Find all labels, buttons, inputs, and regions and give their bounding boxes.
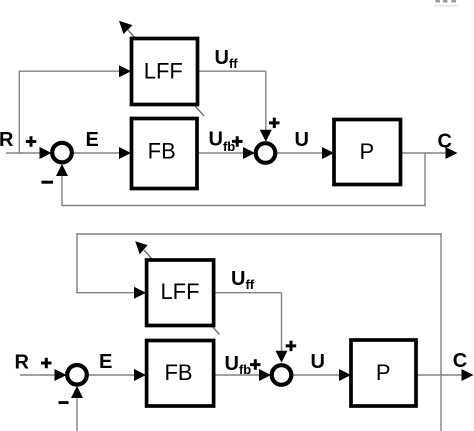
plus sign at S2 top (top): [269, 118, 280, 129]
wire Uff vertical drop to S2 (top): [265, 71, 267, 131]
svg-text:C: C: [453, 350, 467, 372]
arrowhead feedback into S1 bottom (top): [56, 164, 68, 176]
wire R input (bottom): [20, 374, 57, 376]
svg-text:P: P: [359, 139, 374, 164]
svg-text:P: P: [376, 360, 391, 385]
adjustment diagonal through LFF (bottom): [144, 250, 220, 335]
wire R input (top): [6, 152, 42, 154]
summing junction S2 (top): [256, 143, 276, 163]
wire feedback vertical into S1 (top): [61, 175, 63, 206]
summing junction S1 (top): [52, 143, 72, 163]
svg-text:FB: FB: [148, 139, 176, 164]
wire feedback below S1 (bottom): [76, 397, 78, 431]
svg-text:FB: FB: [164, 360, 192, 385]
arrowhead into LFF (bottom): [134, 287, 146, 299]
arrowhead into LFF (top): [119, 65, 131, 77]
wire feedback horizontal top (bottom): [76, 233, 441, 235]
wire S1 to FB (top): [73, 152, 121, 154]
summing junction S1 (bottom): [67, 365, 87, 385]
wire S2 to P (bottom): [293, 374, 341, 376]
arrowhead into S2 left (bottom): [259, 369, 271, 381]
arrowhead into FB (top): [119, 147, 131, 159]
block LFF (bottom): [147, 260, 214, 326]
summing junction S2 (bottom): [272, 365, 292, 385]
arrowhead into P (bottom): [339, 369, 351, 381]
arrowhead into S1 (bottom): [55, 369, 67, 381]
wire S1 to FB (bottom): [88, 374, 136, 376]
block FB (top): [132, 119, 198, 189]
arrowhead output C (top): [446, 147, 458, 159]
wire feedback vertical right (bottom): [440, 233, 442, 431]
arrowhead into FB (bottom): [134, 369, 146, 381]
block FB (bottom): [147, 341, 214, 407]
wire P to C output (bottom): [416, 374, 463, 376]
wire LFF output Uff horizontal (bottom): [214, 292, 282, 294]
wire feedback vertical right (top): [424, 153, 426, 206]
arrowhead into S2 top (top): [260, 130, 272, 142]
minus sign at S1 (bottom): [59, 401, 69, 404]
plus sign at S1 (bottom): [41, 358, 52, 369]
wire S2 to P (top): [277, 152, 324, 154]
svg-text:C: C: [438, 131, 452, 153]
wire branch R to LFF vertical (top): [18, 71, 20, 153]
adjustment arrowhead (bottom LFF): [135, 241, 147, 254]
arrowhead into P (top): [322, 147, 334, 159]
wire feedback vertical left (bottom): [76, 233, 78, 292]
wire feedback horizontal bottom (top): [61, 205, 425, 207]
wire FB to S2 (top): [197, 152, 243, 154]
svg-text:R: R: [15, 352, 30, 374]
svg-text:R: R: [0, 129, 14, 151]
adjustment arrowhead (top LFF): [119, 21, 133, 34]
wire FB to S2 (bottom): [214, 374, 260, 376]
block P (top): [334, 120, 401, 185]
svg-text:LFF: LFF: [144, 59, 183, 84]
arrowhead into S2 left (top): [243, 147, 255, 159]
svg-text:U: U: [295, 129, 309, 151]
minus sign at S1 (top): [42, 181, 54, 184]
arrowhead into S1 (top): [40, 147, 52, 159]
adjustment diagonal through LFF (top): [128, 30, 204, 116]
wire LFF input horizontal (bottom): [76, 292, 136, 294]
plus sign at S1 (top): [26, 136, 37, 147]
arrowhead into S2 top (bottom): [276, 351, 288, 363]
arrowhead feedback into S1 bottom (bottom): [71, 386, 83, 398]
wire Uff vertical drop to S2 (bottom): [281, 293, 283, 352]
wire P to C output (top): [400, 152, 447, 154]
svg-text:E: E: [99, 351, 112, 373]
block LFF (top): [132, 39, 198, 105]
svg-text:U: U: [311, 351, 325, 373]
svg-text:E: E: [86, 129, 99, 151]
plus sign after Ufb (top): [232, 136, 243, 147]
svg-text:LFF: LFF: [160, 279, 199, 304]
arrowhead output C (bottom): [462, 369, 474, 381]
wire LFF input horizontal (top): [19, 70, 120, 72]
plus sign after Ufb (bottom): [250, 359, 261, 370]
plus sign at S2 top (bottom): [286, 341, 297, 352]
cropped grey text fragments top-right: [434, 0, 458, 7]
wire LFF output Uff horizontal (top): [197, 70, 266, 72]
block P (bottom): [351, 340, 416, 406]
